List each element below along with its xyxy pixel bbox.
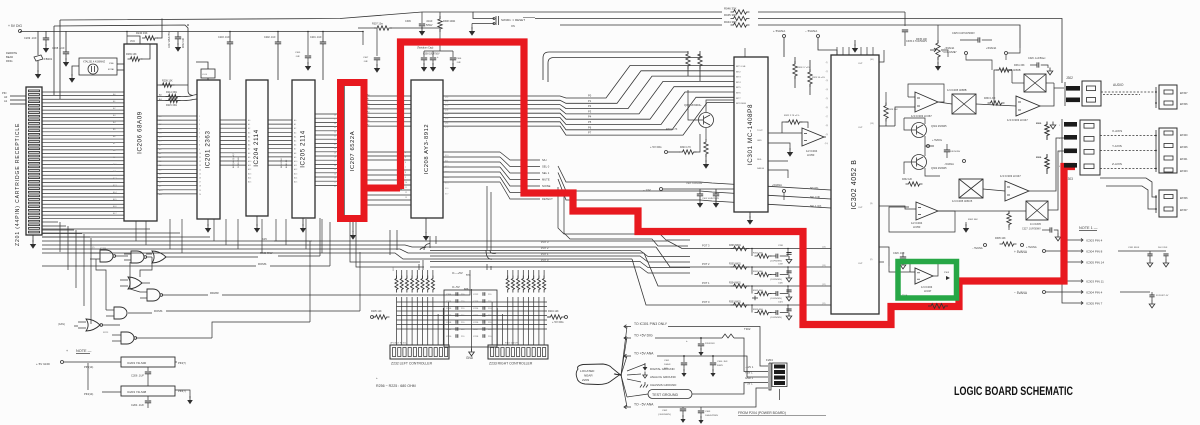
svg-text:IC203 74LS00: IC203 74LS00 <box>127 361 147 365</box>
svg-text:D2: D2 <box>159 124 161 126</box>
resistor R315 75ohm <box>1045 122 1049 139</box>
svg-text:C208 .1UF: C208 .1UF <box>52 46 65 50</box>
svg-text:6: 6 <box>199 137 200 139</box>
svg-text:24: 24 <box>334 173 336 175</box>
svg-text:(25): (25) <box>445 118 449 120</box>
svg-text:IC305 PIN 14: IC305 PIN 14 <box>1086 260 1104 264</box>
switch IC305 F <box>959 179 983 198</box>
svg-text:50WV: 50WV <box>717 365 723 367</box>
gate IC209 B <box>131 251 144 263</box>
svg-text:PIN: PIN <box>2 91 6 95</box>
svg-text:TO −5V ANA: TO −5V ANA <box>634 403 654 407</box>
svg-text:A10: A10 <box>248 160 251 163</box>
svg-text:C303 10UF/25WV: C303 10UF/25WV <box>702 198 719 200</box>
bus POT lines <box>312 240 668 242</box>
wire q301 collector <box>904 118 925 124</box>
ground arrow right mid <box>965 222 967 226</box>
svg-text:IO 7: IO 7 <box>445 194 448 196</box>
svg-text:2: 2 <box>199 120 200 122</box>
ground crystal <box>72 66 79 76</box>
svg-text:38: 38 <box>334 115 336 117</box>
svg-text:A11: A11 <box>159 193 162 196</box>
svg-text:R323 1K ±1%: R323 1K ±1% <box>812 77 825 79</box>
capacitor C305b .1UF <box>307 31 309 33</box>
svg-text:FERRITE: FERRITE <box>6 51 17 55</box>
wire controller riser arcs <box>424 244 430 251</box>
IC IC207 6522A <box>344 85 362 217</box>
svg-text:IO 1: IO 1 <box>445 161 448 163</box>
svg-text:(.1UF/50WV): (.1UF/50WV) <box>770 298 782 300</box>
wire IC301 top stub <box>751 44 784 57</box>
svg-text:O—+5V: O—+5V <box>452 271 463 275</box>
red highlight box IC207 <box>341 83 365 219</box>
op-amp IC303 C <box>1016 96 1040 116</box>
vertical feeders to gates <box>59 222 61 252</box>
svg-text:C207: C207 <box>446 315 452 317</box>
capacitor C308 tantalum A <box>423 51 425 57</box>
svg-text:A6: A6 <box>294 144 296 147</box>
svg-text:C306: C306 <box>456 58 462 60</box>
svg-text:27: 27 <box>334 161 336 163</box>
svg-text:GND: GND <box>466 356 474 360</box>
label TO +5V DIG <box>624 336 631 340</box>
svg-text:C202 .1UF: C202 .1UF <box>264 36 276 39</box>
svg-text:(.1UF/50WV): (.1UF/50WV) <box>658 414 671 416</box>
svg-text:R302 10K: R302 10K <box>183 37 185 48</box>
svg-text:− 5VANA: − 5VANA <box>972 246 983 250</box>
bus controller signals to right <box>430 251 690 257</box>
svg-text:Z209: Z209 <box>582 378 589 382</box>
op-amp IC303 A <box>915 92 938 112</box>
resistor R336 vert <box>1007 211 1011 228</box>
svg-text:10: 10 <box>405 182 407 184</box>
svg-text:.1UF: .1UF <box>295 56 300 58</box>
svg-text:R330 1.3M: R330 1.3M <box>984 98 995 100</box>
svg-text:SEL 1 (10): SEL 1 (10) <box>810 205 822 208</box>
svg-text:A0: A0 <box>159 148 161 151</box>
svg-text:1/4 IC303 LF347: 1/4 IC303 LF347 <box>1000 174 1021 178</box>
svg-text:36: 36 <box>334 123 336 125</box>
svg-text:R256 ~ R225 : 680 OHM: R256 ~ R225 : 680 OHM <box>376 384 416 388</box>
label TO -5V ANA <box>624 405 631 409</box>
svg-text:C204 .1UF: C204 .1UF <box>131 403 144 407</box>
wire volume to opamp A <box>912 64 938 92</box>
wire chip drops to controller area <box>350 222 420 262</box>
svg-text:12: 12 <box>405 192 407 194</box>
svg-text:100UF/25WV: 100UF/25WV <box>705 415 719 417</box>
svg-text:R239 13K: R239 13K <box>126 53 137 56</box>
ground IC204 <box>256 216 258 226</box>
svg-text:R324 2.7 ±1%: R324 2.7 ±1% <box>797 67 810 69</box>
svg-text:(21): (21) <box>445 101 449 103</box>
svg-text:A0: A0 <box>294 119 296 122</box>
svg-text:C331 33UF: C331 33UF <box>1128 247 1140 249</box>
op-amp IC304 LF353 A <box>802 128 824 146</box>
svg-text:+: + <box>376 376 378 380</box>
IC IC205 2114 <box>292 80 315 218</box>
svg-text:17: 17 <box>199 182 201 184</box>
svg-text:+ 5VANA: + 5VANA <box>1026 245 1037 249</box>
svg-text:FROM P204 (POWER BOARD): FROM P204 (POWER BOARD) <box>738 411 786 415</box>
svg-text:28: 28 <box>334 157 336 159</box>
resistor R320 4.7K <box>680 150 697 154</box>
svg-text:IC204 2114: IC204 2114 <box>253 129 260 167</box>
svg-text:BIT6: BIT6 <box>736 93 741 95</box>
svg-text:− 5VANA: − 5VANA <box>1014 291 1028 295</box>
svg-text:SEL 1: SEL 1 <box>542 171 550 175</box>
svg-text:A10: A10 <box>294 160 297 163</box>
svg-text:(.1UF/50WV): (.1UF/50WV) <box>770 279 782 281</box>
svg-text:R332 12K: R332 12K <box>902 179 913 181</box>
wire to lower plug 1 <box>1100 178 1156 197</box>
gate AND H <box>121 332 134 344</box>
svg-text:A5: A5 <box>294 140 296 143</box>
svg-text:BIT2: BIT2 <box>736 71 741 73</box>
svg-text:DIGITAL GROUND: DIGITAL GROUND <box>650 367 675 371</box>
svg-text:GND 1: GND 1 <box>745 376 753 380</box>
svg-text:TOUT: TOUT <box>757 130 763 132</box>
svg-text:P6: P6 <box>588 125 592 129</box>
IC IC203 74LS00 note box 1 <box>121 357 175 367</box>
resistor R308 100 ohm <box>438 16 442 32</box>
capacitor C306 .1UF <box>452 51 454 57</box>
svg-text:A6: A6 <box>159 172 161 175</box>
svg-text:R240 33K: R240 33K <box>136 31 148 35</box>
label TO IC301 PIN3 ONLY <box>624 325 631 329</box>
resistor R319 4.7K <box>704 139 708 157</box>
svg-text:A9: A9 <box>248 156 250 159</box>
svg-text:(3): (3) <box>870 203 873 205</box>
svg-text:RT LT DN UP: RT LT DN UP <box>505 343 518 345</box>
svg-text:D7: D7 <box>159 145 161 147</box>
gate IC209 A <box>100 250 113 262</box>
svg-text:RDWR: RDWR <box>210 291 219 295</box>
svg-text:− 5V 1: − 5V 1 <box>745 382 753 386</box>
svg-text:A5: A5 <box>159 168 161 171</box>
svg-text:− 13V: − 13V <box>643 188 651 192</box>
svg-text:A0: A0 <box>4 95 8 99</box>
svg-text:14: 14 <box>199 169 201 171</box>
capacitor C327 <box>1050 227 1052 232</box>
svg-text:IC304 PIN 8: IC304 PIN 8 <box>1086 249 1103 253</box>
svg-text:1: 1 <box>199 116 200 118</box>
svg-text:5: 5 <box>405 157 406 159</box>
svg-text:IO 0: IO 0 <box>445 155 448 157</box>
resistor R316 75ohm <box>1045 155 1049 172</box>
svg-text:DETECT: DETECT <box>542 197 553 201</box>
power +5VANA pair A <box>1021 244 1024 247</box>
svg-text:IO 2: IO 2 <box>445 166 448 168</box>
svg-text:C203 .1UF: C203 .1UF <box>218 36 230 39</box>
svg-text:TO +5V DIG: TO +5V DIG <box>634 334 653 338</box>
svg-text:A15: A15 <box>294 181 297 184</box>
svg-text:EP306: EP306 <box>1180 103 1188 106</box>
svg-text:EP306: EP306 <box>1180 197 1188 200</box>
svg-text:(.1UF/50WV): (.1UF/50WV) <box>770 261 782 263</box>
wire volume drop <box>904 12 906 26</box>
svg-text:A5: A5 <box>248 140 250 143</box>
svg-text:C212: C212 <box>473 294 479 296</box>
svg-text:BIT7: BIT7 <box>736 98 741 100</box>
svg-text:R335 10K: R335 10K <box>916 38 927 41</box>
capacitor C206 note <box>147 367 149 371</box>
svg-text:25: 25 <box>334 169 336 171</box>
svg-text:IO 6: IO 6 <box>445 188 448 190</box>
svg-text:C325 0.047UF/50WV: C325 0.047UF/50WV <box>952 32 975 35</box>
svg-text:Z233 RIGHT CONTROLLER: Z233 RIGHT CONTROLLER <box>489 362 533 366</box>
bus IC208 IO pins <box>443 151 500 153</box>
svg-text:(10): (10) <box>870 59 874 61</box>
svg-text:50WV: 50WV <box>426 24 433 27</box>
ground ANALOG GROUND <box>644 372 646 376</box>
ground IC201 <box>207 219 209 226</box>
svg-text:IC301 MC-1408P8: IC301 MC-1408P8 <box>747 104 754 165</box>
op-amp G feedback box <box>889 207 955 232</box>
transistor Q302 2N3905 <box>912 155 927 170</box>
svg-text:SCRN RW#1: SCRN RW#1 <box>238 155 240 168</box>
connector J303 pin 4 over red <box>1064 163 1077 168</box>
svg-text:O−5V: O−5V <box>452 285 460 289</box>
right controller resistor array <box>507 297 509 345</box>
svg-text:R305 10K: R305 10K <box>995 237 1006 240</box>
svg-text:A12: A12 <box>248 168 251 171</box>
svg-text:22: 22 <box>334 182 336 184</box>
svg-text:R205 12K: R205 12K <box>371 310 382 313</box>
svg-text:+: + <box>66 349 68 353</box>
svg-text:"VOLUME": "VOLUME" <box>942 50 957 54</box>
capacitor C300 .1UF <box>712 355 714 357</box>
svg-text:(13): (13) <box>822 265 826 267</box>
svg-text:C205: C205 <box>446 301 452 303</box>
wire +5V top rail <box>20 31 363 33</box>
svg-text:BIT4: BIT4 <box>736 82 741 84</box>
green highlight box op-amp <box>898 262 957 299</box>
svg-text:A12: A12 <box>294 168 297 171</box>
svg-text:− 5VANA: − 5VANA <box>805 29 817 33</box>
svg-text:C206: C206 <box>446 308 452 310</box>
svg-text:P2: P2 <box>588 104 592 108</box>
svg-text:C301: C301 <box>664 360 670 362</box>
svg-text:(11): (11) <box>822 303 826 305</box>
gate OR G <box>86 319 100 331</box>
ground arrow switch <box>471 24 473 30</box>
svg-text:6: 6 <box>405 162 406 164</box>
svg-text:LS10: LS10 <box>202 74 208 76</box>
svg-text:A6: A6 <box>248 144 250 147</box>
svg-text:EP401: EP401 <box>1180 158 1188 161</box>
wire top rail A <box>473 11 722 13</box>
svg-text:29: 29 <box>334 152 336 154</box>
svg-text:.1UF: .1UF <box>456 62 461 64</box>
wire crystal to IC206 <box>117 63 124 65</box>
wire IC302 top stubs <box>836 47 838 55</box>
svg-text:A7: A7 <box>248 148 250 151</box>
svg-text:IC201 2363: IC201 2363 <box>205 131 212 169</box>
svg-text:+ 5V DIG: + 5V DIG <box>552 320 564 324</box>
svg-text:EP406: EP406 <box>1180 146 1188 149</box>
svg-text:C326 .1uF/50wv: C326 .1uF/50wv <box>1028 57 1046 60</box>
svg-text:A3: A3 <box>159 160 161 163</box>
svg-text:8: 8 <box>405 172 406 174</box>
svg-text:+ 5VANA: + 5VANA <box>773 29 785 33</box>
svg-text:+ 5VDIG: + 5VDIG <box>932 138 942 142</box>
svg-text:F204: F204 <box>766 358 773 362</box>
svg-text:VCC: VCC <box>130 40 135 43</box>
ground ferrite <box>37 70 39 74</box>
svg-text:RING: RING <box>6 59 12 63</box>
wire IC302 out to opamp A <box>895 107 915 126</box>
svg-text:TO IC301 PIN3 ONLY: TO IC301 PIN3 ONLY <box>634 322 668 326</box>
svg-text:2H 2.2UF: 2H 2.2UF <box>1158 247 1168 249</box>
svg-text:C305: C305 <box>295 52 301 54</box>
ground IC205 <box>302 218 304 226</box>
svg-text:LF353: LF353 <box>807 153 815 157</box>
capacitor C309 .01UF 50WV <box>421 12 423 23</box>
svg-text:D4: D4 <box>159 132 161 134</box>
svg-text:P4: P4 <box>588 115 592 119</box>
wire IO risers to controllers <box>486 186 488 250</box>
svg-text:(Tantalum Cap): (Tantalum Cap) <box>417 47 434 50</box>
svg-text:A8: A8 <box>294 152 296 155</box>
wire switch B out <box>976 104 1016 106</box>
svg-text:IC205 2114: IC205 2114 <box>300 130 307 168</box>
bus IC205 to IC207 <box>315 113 342 115</box>
svg-text:C307: C307 <box>363 57 369 59</box>
bus P0-P7 IC208 to IC301 <box>443 66 734 99</box>
svg-text:C208: C208 <box>446 322 452 324</box>
svg-text:IC209: IC209 <box>100 248 107 250</box>
svg-text:5: 5 <box>199 132 200 134</box>
svg-text:C209 .1UF: C209 .1UF <box>24 36 37 40</box>
svg-text:1UF/50WV: 1UF/50WV <box>950 151 961 153</box>
svg-text:9: 9 <box>199 149 200 151</box>
svg-text:.1UF: .1UF <box>363 61 368 63</box>
svg-text:OUT: OUT <box>858 263 863 265</box>
capacitor C304 22UF <box>700 337 702 339</box>
bus Z201 lower lines <box>42 221 58 223</box>
svg-text:IC206 68A09: IC206 68A09 <box>137 111 144 154</box>
bus Z201 to IC206 <box>42 91 124 93</box>
bus IC204 to IC205 <box>268 119 292 121</box>
wire top rail C <box>54 25 188 91</box>
svg-text:(24): (24) <box>445 114 449 116</box>
svg-text:C216: C216 <box>473 322 479 324</box>
svg-text:C303: C303 <box>705 411 711 413</box>
svg-text:P0: P0 <box>588 94 592 98</box>
svg-text:X-AXIS: X-AXIS <box>1112 129 1122 133</box>
svg-text:D5: D5 <box>159 137 161 139</box>
svg-text:P303: P303 <box>944 272 950 274</box>
svg-text:BIT5: BIT5 <box>736 87 741 89</box>
svg-text:IO 5: IO 5 <box>445 183 448 185</box>
svg-text:MUTE: MUTE <box>542 178 550 182</box>
capacitor C323 <box>944 150 950 152</box>
svg-text:C217: C217 <box>473 329 479 331</box>
svg-text:1/4 IC305 4066 B: 1/4 IC305 4066 B <box>952 199 972 203</box>
svg-text:R045 39K: R045 39K <box>724 13 737 17</box>
svg-text:18: 18 <box>199 186 201 188</box>
svg-text:R302 56K: R302 56K <box>968 219 978 221</box>
svg-text:LOCATED: LOCATED <box>580 369 595 373</box>
svg-text:100UF: 100UF <box>664 364 671 366</box>
capacitor C307 .1UF <box>376 28 378 56</box>
left controller extra pins <box>437 314 439 345</box>
capacitor C302 <box>697 194 703 196</box>
svg-text:(13): (13) <box>870 123 874 125</box>
svg-text:10: 10 <box>199 153 201 155</box>
wire pair curve right 1 <box>543 52 640 80</box>
wire compare detect down <box>558 187 690 240</box>
ground IC301 <box>749 212 751 218</box>
svg-text:EP307: EP307 <box>1180 209 1188 212</box>
svg-text:A10: A10 <box>159 189 162 192</box>
power +5VANA note tree <box>1043 250 1046 253</box>
svg-text:1/2 IC304: 1/2 IC304 <box>806 149 818 153</box>
svg-text:3: 3 <box>199 124 200 126</box>
wire switch F to opamp E <box>983 189 1005 191</box>
svg-text:7: 7 <box>199 141 200 143</box>
wire top rail B <box>60 12 422 20</box>
wire note to box1 <box>64 361 121 363</box>
svg-text:(14): (14) <box>822 247 826 249</box>
svg-text:D0: D0 <box>159 116 161 118</box>
svg-text:A0 A1 A2: A0 A1 A2 <box>285 159 288 168</box>
wire left riser 2 <box>59 20 61 99</box>
svg-text:−5VANA: −5VANA <box>944 46 954 50</box>
capacitor C303 bottom <box>700 407 702 410</box>
svg-text:(2): (2) <box>92 247 95 249</box>
svg-text:P3: P3 <box>588 109 592 113</box>
svg-text:IC303 PIN 4: IC303 PIN 4 <box>1086 238 1103 242</box>
svg-text:+5VANA: +5VANA <box>986 46 996 50</box>
IC IC204 2114 <box>246 80 268 216</box>
svg-text:POT 0: POT 0 <box>702 300 710 304</box>
svg-text:C201 .1UF: C201 .1UF <box>310 36 322 39</box>
wire opamp G to switch I <box>938 210 1026 212</box>
op-amp IC304 G <box>916 202 938 220</box>
svg-text:A0(5) A1(6) A2(7): A0(5) A1(6) A2(7) <box>232 152 235 168</box>
svg-text:T302: T302 <box>744 327 751 331</box>
svg-text:TO +5V ANA: TO +5V ANA <box>634 352 654 356</box>
svg-text:NEAR: NEAR <box>584 374 593 378</box>
svg-text:+5VANA: +5VANA <box>772 183 782 187</box>
wire reset lower line <box>472 23 494 25</box>
long bus lines to gates <box>42 240 312 242</box>
wire center gnd <box>471 289 473 351</box>
svg-text:C218: C218 <box>473 336 479 338</box>
svg-text:A7: A7 <box>159 177 161 180</box>
svg-text:C308 10UF/16V: C308 10UF/16V <box>423 54 440 56</box>
svg-text:IC305 PIN 7: IC305 PIN 7 <box>1086 301 1103 305</box>
svg-text:ANALOG GROUND: ANALOG GROUND <box>650 375 676 379</box>
svg-text:NOTE 1 —: NOTE 1 — <box>1079 226 1098 230</box>
ferrite bead FB201 <box>34 55 43 61</box>
svg-text:P1: P1 <box>588 99 592 103</box>
svg-text:C327 .1UF/50WV: C327 .1UF/50WV <box>1022 228 1041 231</box>
svg-text:33 2UF/? 4V: 33 2UF/? 4V <box>1156 295 1169 297</box>
svg-text:33: 33 <box>334 136 336 138</box>
ground IC207 <box>352 222 354 232</box>
resistor R316 75ohm <box>1045 155 1049 172</box>
svg-text:(23): (23) <box>445 109 449 111</box>
plug EP307/EP306 audio <box>1155 87 1157 108</box>
capacitor C301 100UF <box>683 355 685 357</box>
svg-text:11: 11 <box>199 157 201 159</box>
svg-text:BKN RW#1: BKN RW#1 <box>281 157 283 168</box>
crystal XTAL201 4.4336MHZ <box>79 58 117 75</box>
svg-text:(26): (26) <box>445 122 449 124</box>
svg-text:4: 4 <box>405 152 406 154</box>
